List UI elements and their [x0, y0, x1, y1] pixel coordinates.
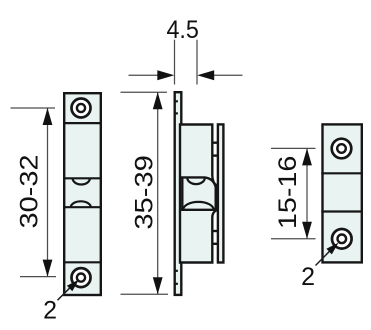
lower spring leaf edge line	[181, 209, 217, 211]
label 2 leader arrowhead (right view)	[326, 243, 338, 255]
divider line at upper spring lip	[63, 177, 102, 179]
front plate bottom hole upper edge tick	[212, 230, 220, 232]
dimension 30-32 lower arrowhead	[43, 260, 53, 277]
dimension 35-39 bottom extension line	[121, 293, 169, 295]
dimension 30-32 bottom extension line	[20, 276, 56, 278]
strike plate top screw hole inner circle	[337, 144, 346, 153]
bottom screw hole outer ring	[72, 268, 91, 287]
dimension 4.5 right extension line	[196, 40, 198, 85]
dimension 35-39 dimension line	[157, 92, 159, 294]
dimension 15-16 upper arrowhead	[302, 148, 312, 165]
svg-text:2: 2	[301, 263, 315, 291]
upper spring leaf inner edge	[181, 177, 216, 209]
label 2 leader line (left view)	[58, 287, 71, 300]
back plate top hole upper edge tick	[174, 100, 178, 102]
dimension 4.5 left arrowhead	[157, 70, 174, 80]
back mounting plate side profile	[175, 92, 182, 295]
back plate bottom hole lower edge tick	[174, 283, 178, 285]
dimension 4.5 right arrowhead	[197, 70, 214, 80]
mouth left web line	[181, 177, 183, 209]
dimension 35-39 upper arrowhead	[153, 92, 163, 109]
lower spring leaf curl arc	[183, 202, 213, 210]
strike plate upper divider line	[321, 172, 363, 174]
top screw hole outer ring	[72, 99, 91, 118]
dimension 30-32 upper arrowhead	[43, 108, 53, 125]
divider line at lower spring lip	[63, 206, 102, 208]
strike plate bottom screw hole inner circle	[338, 235, 347, 244]
back plate top hole lower edge tick	[174, 112, 178, 114]
svg-text:35-39: 35-39	[131, 155, 158, 230]
label 2 leader arrowhead (left view)	[67, 280, 79, 292]
strike plate outline	[323, 124, 362, 262]
divider line above bottom screw section	[63, 261, 102, 263]
dimension 15-16 dimension line	[306, 148, 308, 238]
dimension 15-16 top extension line	[271, 147, 316, 149]
back plate bottom hole upper edge tick	[174, 270, 178, 272]
svg-text:30-32: 30-32	[17, 155, 44, 229]
catch body side profile	[180, 125, 216, 263]
lower spring lip arc (bulges up)	[71, 201, 91, 207]
strike plate lower divider line	[321, 210, 363, 212]
upper spring leaf curl arc	[187, 178, 205, 185]
dimension 4.5 left extension line	[174, 40, 176, 85]
dimension 15-16 lower arrowhead	[302, 222, 312, 239]
strike plate top screw hole outer ring	[332, 139, 352, 159]
dimension 30-32 top extension line	[11, 107, 56, 109]
strike plate bottom screw hole outer ring	[332, 229, 352, 249]
dimension 35-39 lower arrowhead	[153, 277, 163, 294]
dimension 30-32 dimension line	[47, 108, 49, 277]
top screw hole inner circle	[77, 104, 85, 112]
catch housing front view outline	[64, 93, 101, 295]
divider line below top screw section	[63, 122, 102, 124]
front plate top hole lower edge tick	[212, 154, 220, 156]
front plate bottom hole lower edge tick	[212, 243, 220, 245]
svg-text:4.5: 4.5	[166, 16, 199, 44]
dimension 35-39 top extension line	[121, 91, 168, 93]
front plate top hole upper edge tick	[212, 141, 220, 143]
bottom screw hole inner circle	[77, 274, 85, 282]
dimension 4.5 right arrow tail line	[214, 74, 243, 76]
upper spring lip arc (dips down)	[73, 178, 90, 184]
dimension 4.5 left arrow tail line	[129, 74, 159, 76]
dimension 15-16 bottom extension line	[271, 238, 316, 240]
svg-text:2: 2	[43, 296, 57, 324]
front strike plate side profile	[218, 124, 224, 262]
label 2 leader line (right view)	[316, 251, 331, 266]
svg-text:15-16: 15-16	[275, 156, 302, 230]
